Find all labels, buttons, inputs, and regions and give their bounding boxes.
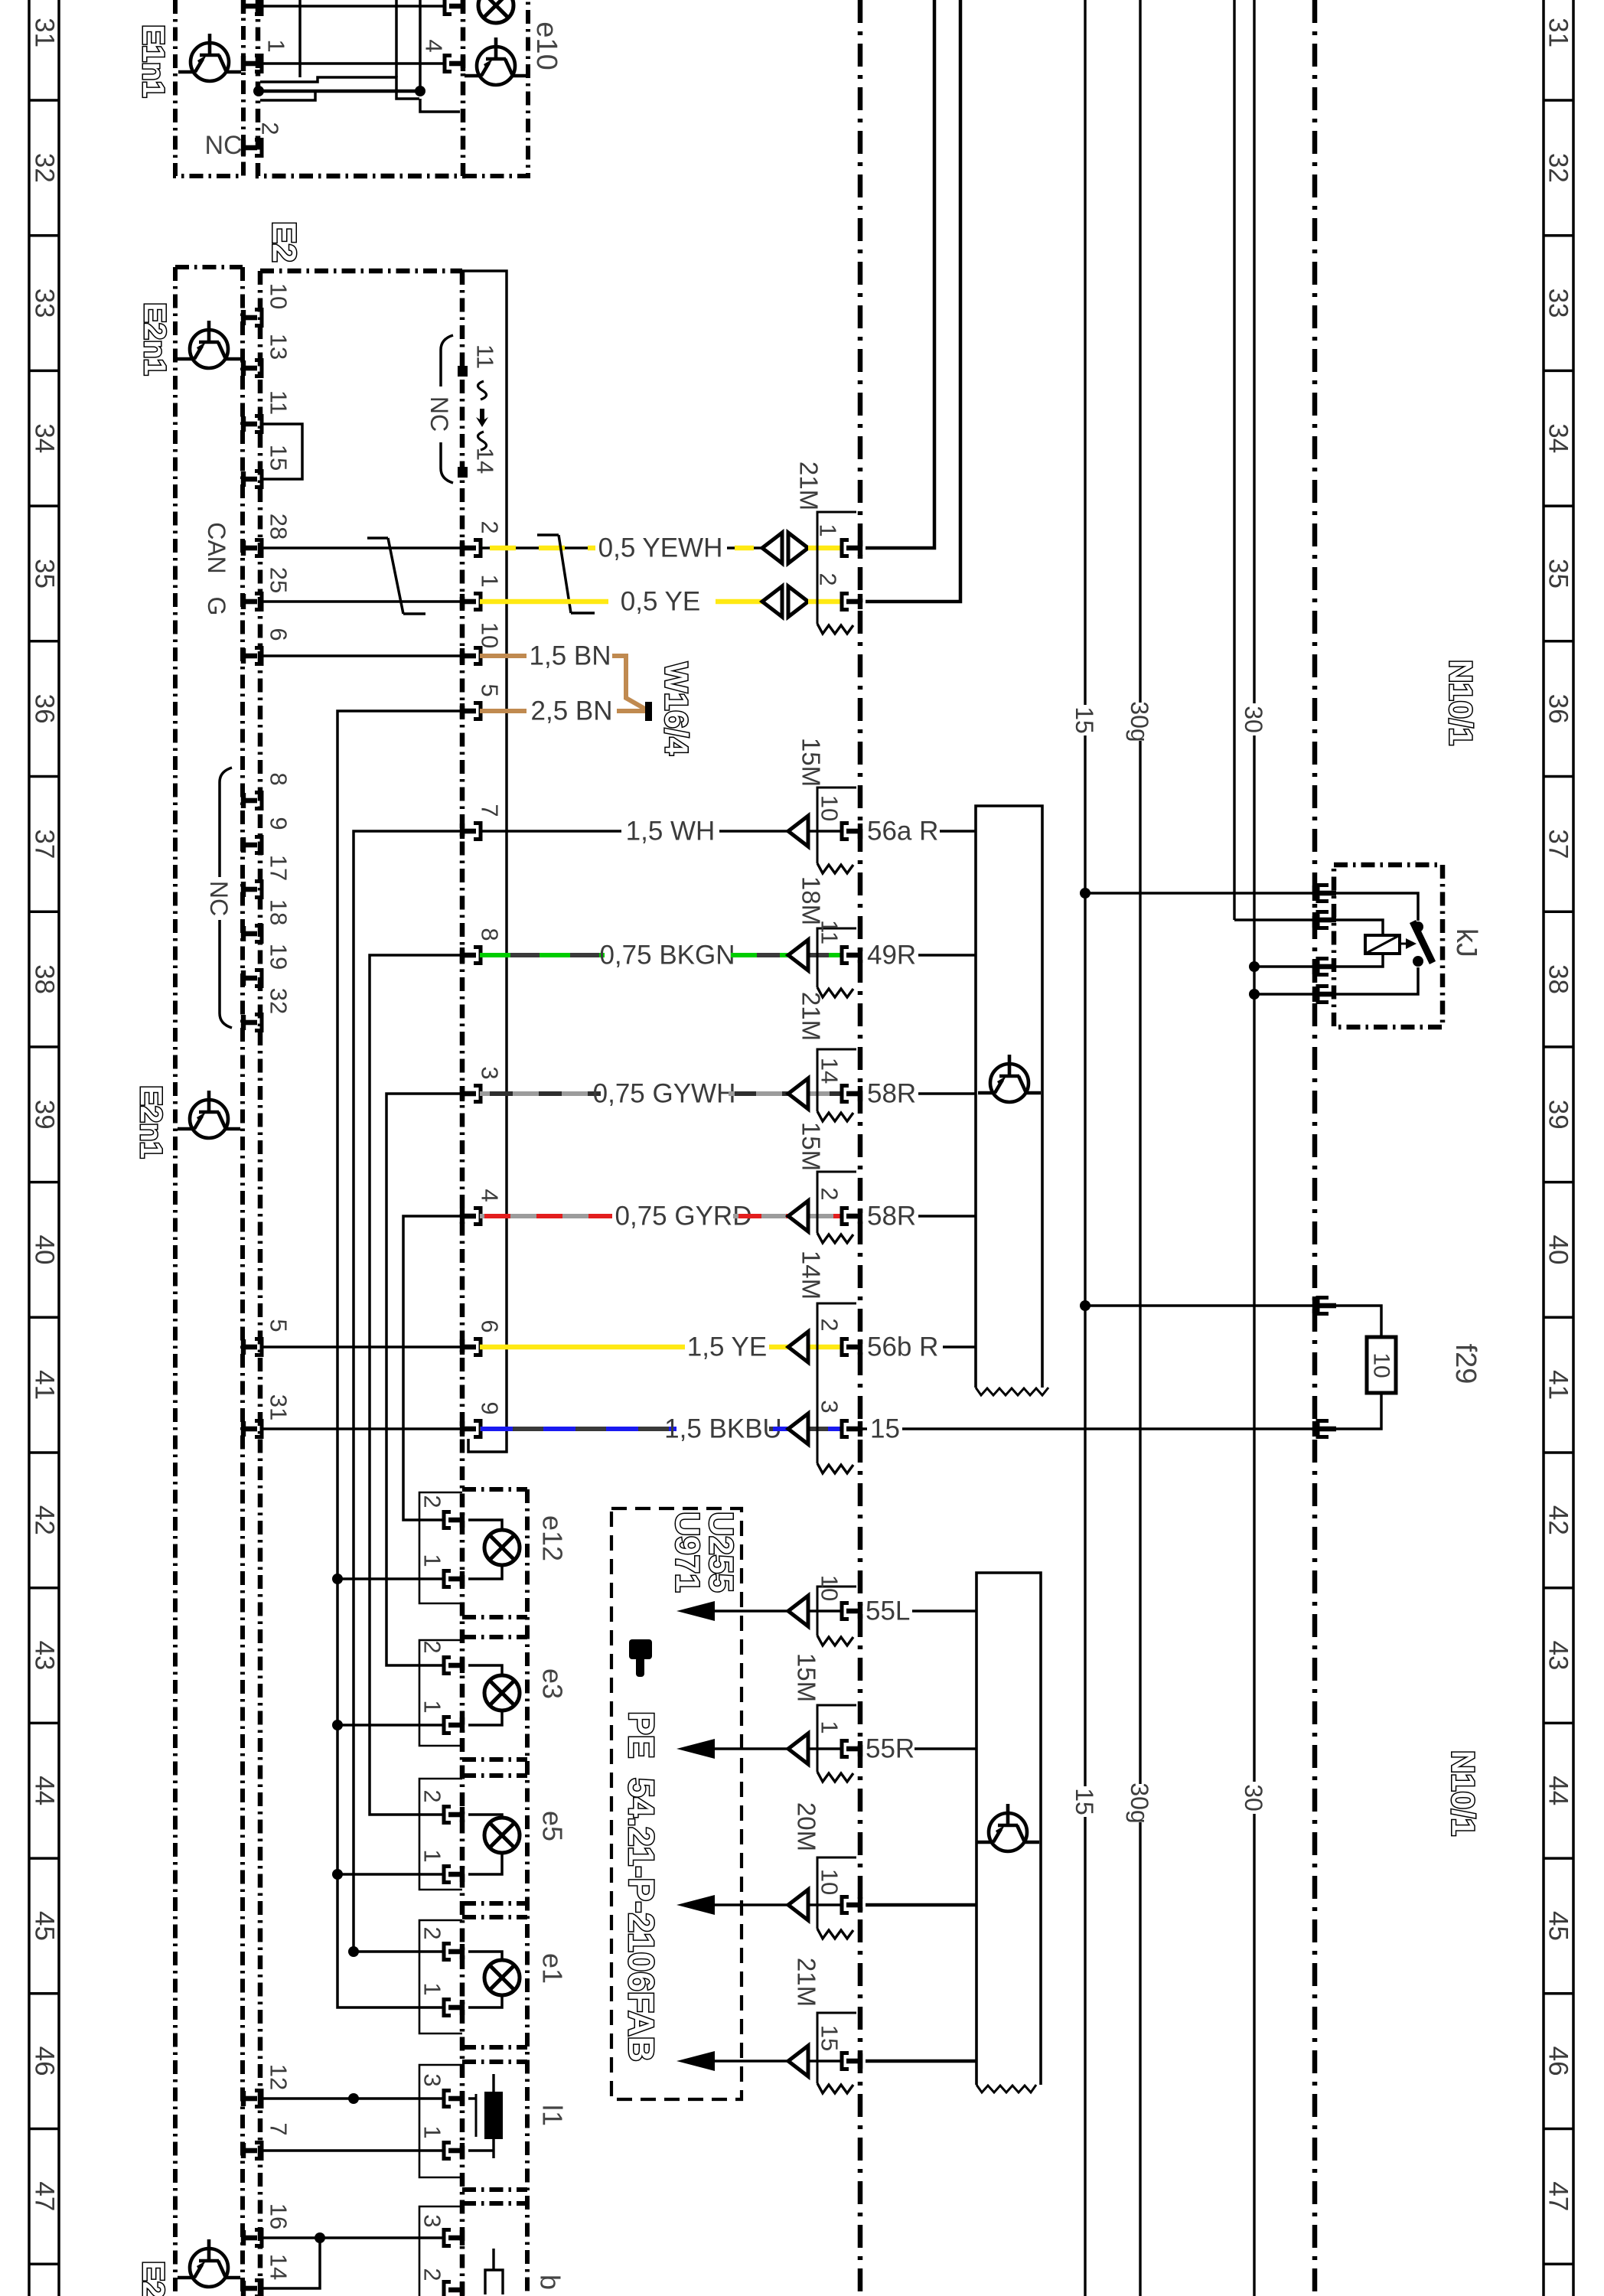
svg-text:38: 38 [1544, 964, 1573, 994]
component box E2n1 left edge [173, 267, 178, 2296]
wire 15 bus to kJ pin [1085, 892, 1315, 895]
lamp e1 [484, 1960, 520, 1995]
svg-text:W16/4: W16/4 [659, 662, 695, 755]
svg-text:6: 6 [266, 628, 292, 641]
svg-text:2,5 BN: 2,5 BN [531, 696, 613, 726]
svg-text:1: 1 [477, 574, 504, 587]
wire e1 pin2 to lamp [468, 1952, 502, 1960]
svg-text:3: 3 [419, 2214, 446, 2227]
svg-text:58R: 58R [867, 1079, 916, 1109]
pin 11 stub E2 right [458, 366, 468, 377]
junction l1 pin3 feed [348, 2093, 359, 2104]
pin 10 55L [842, 1603, 862, 1619]
pin 2 21M third [842, 1208, 862, 1225]
junction b pin3 feed [315, 2232, 325, 2243]
twisted pair marker outer [537, 535, 595, 613]
svg-text:U971: U971 [669, 1512, 706, 1592]
svg-text:0,75 GYRD: 0,75 GYRD [615, 1202, 752, 1231]
wire E2 pin5 row [262, 1345, 462, 1349]
fuse f29 [1367, 1337, 1396, 1393]
wire 30 bus to kJ coil [1254, 965, 1315, 968]
component box E2 top edge [260, 269, 462, 274]
LED in E2n1 upper [178, 321, 240, 368]
svg-text:25: 25 [266, 567, 292, 593]
wire 1,5 BN brown [480, 654, 527, 658]
PE arrow 55R [676, 1739, 715, 1759]
svg-text:e5: e5 [537, 1811, 569, 1841]
pin 2 E1 (NC) [241, 140, 262, 156]
svg-text:39: 39 [1544, 1100, 1573, 1130]
svg-text:2: 2 [419, 1640, 446, 1653]
wire pin7 to l1 pin1 [262, 2149, 445, 2152]
branch to e12 pin1 [337, 1577, 445, 1580]
svg-text:E2: E2 [266, 221, 303, 263]
label bg 15 bus upper [1071, 705, 1099, 735]
pin 5 E2 left [241, 1339, 262, 1355]
svg-text:17: 17 [266, 855, 292, 881]
lamp boxes right edge [525, 1489, 530, 2296]
component box E2n1 right edge [240, 267, 245, 2296]
junction 30 bus coil [1249, 961, 1260, 972]
pin 2 e1 [444, 1944, 465, 1960]
wire 1,5 BKBU base [480, 1427, 676, 1431]
svg-text:1: 1 [817, 1720, 843, 1733]
junction e12 pin1 [332, 1574, 343, 1584]
svg-text:11: 11 [266, 390, 292, 415]
pin 10 E2 left [241, 310, 262, 326]
pin 4 E2 right [460, 1208, 481, 1225]
wire 20M to module2 [866, 1903, 976, 1907]
PE arrow 21M fourth [676, 2051, 715, 2071]
wire 0,75 BKGN green dashes [480, 953, 605, 957]
label bg YEWH [595, 533, 727, 562]
label bg 15 [867, 1416, 902, 1442]
pin 3 14M [842, 1421, 862, 1437]
wire l1 pin1 lead [468, 2149, 494, 2152]
pin 2 e5 [444, 1807, 465, 1823]
svg-text:31: 31 [1544, 18, 1573, 47]
svg-text:3: 3 [477, 1066, 504, 1079]
NC squiggle arrows [478, 381, 486, 450]
svg-text:31: 31 [30, 18, 60, 47]
pin kJ 3 [1312, 959, 1317, 974]
bus wire unnamed [1233, 0, 1235, 920]
wire E1 internal staircase B [260, 77, 419, 99]
wire vertical drop x549 [419, 0, 422, 91]
connector housing e5 [419, 1779, 462, 1890]
connector housing 14M [817, 1303, 856, 1463]
svg-text:38: 38 [30, 964, 60, 994]
wire e5 lamp to pin1 [468, 1853, 502, 1874]
svg-text:15: 15 [1071, 1788, 1098, 1815]
svg-text:12: 12 [266, 2064, 292, 2090]
connector housing 21M third [817, 1172, 856, 1233]
svg-text:30g: 30g [1126, 1782, 1153, 1823]
svg-text:14: 14 [817, 1058, 843, 1084]
wire unnamed bus to kJ [1234, 918, 1315, 921]
pin 32 E2 left [241, 1015, 262, 1031]
svg-text:1: 1 [419, 1700, 446, 1713]
wire E2 pin28-pin2 CAN H [262, 546, 462, 550]
connector arrow BKGN [788, 940, 808, 970]
label bg 30 upper [1240, 703, 1268, 735]
wire E2 shield top [462, 271, 507, 1452]
wire 49R to module [918, 954, 976, 957]
svg-text:31: 31 [266, 1394, 292, 1420]
lamp box e3 bottom edge [462, 1757, 527, 1762]
pin 1 21M [842, 540, 862, 556]
svg-text:15M: 15M [793, 1653, 821, 1702]
pin 2 14M [842, 1339, 862, 1355]
pin 3 b [444, 2230, 465, 2246]
wire net 15 inside N10/1 [860, 1427, 1315, 1430]
pin 1 55R [842, 1741, 862, 1757]
wire BKGN right green [731, 953, 843, 957]
svg-text:21M: 21M [795, 461, 823, 510]
wire 0,5 YEWH black base [480, 546, 762, 550]
svg-text:33: 33 [30, 289, 60, 318]
wire GYRD right red [738, 1214, 843, 1218]
lamp box e12 top edge [462, 1487, 527, 1492]
svg-text:47: 47 [1544, 2181, 1573, 2211]
pin 7 E2 right [460, 823, 481, 840]
wire E1 top row [260, 5, 446, 8]
pin 3 E2 right [460, 1086, 481, 1102]
reference box U255/U971 [611, 1508, 742, 2099]
svg-text:15M: 15M [797, 738, 826, 787]
pin 16 E2 left [241, 2230, 262, 2246]
pin 9 E2 right [460, 1421, 481, 1437]
wire 21M fourth left [715, 2060, 843, 2063]
svg-text:2: 2 [817, 1318, 843, 1331]
svg-text:E2n1: E2n1 [136, 2261, 170, 2296]
wire pin12 to l1 pin3 [262, 2097, 445, 2100]
NC bracket left cluster [220, 768, 232, 1028]
svg-text:PE 54.21-P-2106FAB: PE 54.21-P-2106FAB [621, 1711, 661, 2062]
pin 2 e3 [444, 1658, 465, 1674]
pin 3 l1 [444, 2091, 465, 2107]
branch to e1 pin2 [354, 1950, 445, 1953]
wire 20M left [715, 1903, 843, 1906]
pin 25 E2 left [241, 594, 262, 610]
wire 56b R to module [943, 1345, 976, 1349]
junction node A2 [415, 86, 425, 96]
wire vertical drop x518 [395, 0, 398, 77]
label bg 30 lower [1240, 1782, 1268, 1814]
svg-text:56b R: 56b R [867, 1332, 938, 1362]
svg-text:35: 35 [30, 559, 60, 589]
svg-text:2: 2 [817, 1187, 843, 1200]
connector arrow BKBU [788, 1414, 808, 1444]
connector arrow 21M fourth [788, 2046, 808, 2076]
pin 15 E2 left [241, 471, 262, 488]
svg-text:32: 32 [1544, 153, 1573, 183]
svg-text:46: 46 [1544, 2047, 1573, 2076]
svg-text:5: 5 [266, 1319, 292, 1332]
pin 9 E2 left [241, 837, 262, 853]
svg-text:10: 10 [1369, 1352, 1394, 1378]
component box l1 bottom edge [462, 2187, 527, 2192]
component box e10 [463, 0, 528, 176]
connector arrow 20M [788, 1890, 808, 1920]
svg-text:44: 44 [1544, 1776, 1573, 1805]
svg-text:39: 39 [30, 1100, 60, 1130]
svg-text:1: 1 [263, 39, 290, 52]
svg-text:28: 28 [266, 514, 292, 540]
module N10/1 left edge [858, 0, 863, 2296]
wire GYWH right dashes [735, 1091, 843, 1096]
connector housing 15M [817, 788, 856, 863]
connector housing e3 [419, 1640, 462, 1746]
wire 0,75 BKGN base [480, 953, 605, 957]
lamp box e5 top edge [462, 1773, 527, 1778]
pin 14 21M [842, 1086, 862, 1102]
wire 56a R to module [940, 830, 976, 833]
wire BKBU right blue [773, 1427, 843, 1431]
pin 14 E2 left [241, 2281, 262, 2296]
LED D1 in E1n1 [178, 34, 241, 81]
lamp box e3 top edge [462, 1635, 527, 1639]
connector housing 18M [817, 928, 856, 987]
hand icon [629, 1639, 652, 1677]
connector arrows YEWH [762, 533, 782, 563]
wire pin14 riser [262, 2238, 320, 2288]
wire E2 pin25-pin1 CAN L [262, 600, 462, 603]
svg-text:0,75 BKGN: 0,75 BKGN [599, 941, 735, 970]
wire vertical drop x392 [298, 0, 302, 77]
wire E1 internal bus A [259, 90, 420, 93]
wire 58R to module [918, 1092, 976, 1095]
svg-text:19: 19 [266, 944, 292, 970]
lamp box e12 bottom edge [462, 1615, 527, 1619]
svg-text:55L: 55L [866, 1596, 910, 1626]
wire GYRD right part [733, 1214, 843, 1218]
svg-text:1,5 YE: 1,5 YE [687, 1332, 767, 1362]
wire E1 internal C [260, 93, 315, 100]
pin kJ 1 [1312, 885, 1317, 901]
svg-text:34: 34 [30, 423, 60, 453]
svg-text:7: 7 [266, 2122, 292, 2135]
svg-text:30g: 30g [1126, 701, 1153, 742]
component box E2n1 top edge [175, 265, 243, 269]
pin f29 top [1312, 1298, 1317, 1313]
pin 12 E2 left [241, 2091, 262, 2107]
wire BKBU right part [769, 1427, 843, 1431]
svg-text:10: 10 [817, 1575, 843, 1601]
svg-text:5: 5 [477, 683, 504, 696]
svg-text:32: 32 [30, 153, 60, 183]
svg-text:18M: 18M [797, 876, 826, 925]
wire f29 top lead [1333, 1306, 1381, 1337]
wire E2 internal pin7 drop x462 [354, 831, 462, 1952]
svg-text:kJ: kJ [1450, 928, 1482, 957]
wire 21M pin2 riser [866, 0, 960, 602]
label bg YE [608, 588, 716, 615]
lamp e12 [484, 1530, 520, 1565]
connector housing 21M second [817, 1049, 856, 1111]
junction e1 pin2 [348, 1946, 359, 1957]
svg-text:14: 14 [266, 2254, 292, 2280]
wire YEWH to 21M pin1 [808, 546, 843, 551]
wire kJ coil bottom [1333, 954, 1383, 967]
pin 2 E2 right [460, 540, 481, 556]
ground stud W16/4 [645, 702, 652, 721]
svg-text:55R: 55R [866, 1734, 914, 1764]
svg-text:U255: U255 [703, 1512, 740, 1592]
svg-text:e3: e3 [537, 1668, 569, 1699]
svg-text:9: 9 [266, 817, 292, 830]
LED in box1 [978, 1055, 1041, 1102]
branch to e3 pin1 [337, 1724, 445, 1727]
wire f29 bottom lead [1333, 1393, 1381, 1429]
pin 11 E2 left [241, 416, 262, 432]
connector arrow 55R [788, 1733, 808, 1764]
pin 13 E2 left [241, 360, 262, 377]
svg-text:3: 3 [419, 2073, 446, 2086]
svg-text:41: 41 [1544, 1370, 1573, 1400]
wire f29 top to bus 15 [1085, 1304, 1315, 1307]
module inner box 1 [976, 806, 1042, 1388]
relay coil kJ [1365, 935, 1400, 954]
wire 1,5 BKBU blue dashes [481, 1427, 676, 1431]
wire YE to 21M pin2 [808, 599, 843, 605]
wire kJ coil top feed [1333, 920, 1383, 935]
wire 0,75 GYRD base [480, 1214, 612, 1218]
svg-text:1: 1 [419, 1554, 446, 1567]
svg-text:56a R: 56a R [867, 817, 938, 846]
pin 10 20M [842, 1897, 862, 1913]
svg-text:0,5 YE: 0,5 YE [621, 587, 700, 617]
page border right column [1544, 0, 1573, 2296]
svg-text:36: 36 [1544, 694, 1573, 724]
pin 15 21M fourth [842, 2053, 862, 2069]
svg-text:16: 16 [266, 2203, 292, 2229]
pin E1 left top [241, 0, 262, 15]
relay box kJ [1334, 865, 1443, 1027]
svg-text:2: 2 [815, 572, 842, 585]
svg-text:43: 43 [30, 1641, 60, 1671]
svg-text:46: 46 [30, 2047, 60, 2076]
wire E2 internal pin11-pin15 loop [262, 424, 302, 479]
svg-text:11: 11 [472, 344, 499, 369]
PE arrow 20M [676, 1895, 715, 1915]
svg-text:14M: 14M [797, 1251, 826, 1300]
pin 31 E2 left [241, 1421, 262, 1437]
lamp box e1 bottom edge [462, 2045, 527, 2050]
twisted pair marker inner [367, 538, 425, 614]
svg-text:10: 10 [266, 283, 292, 309]
wire 0,5 YE yellow [480, 599, 762, 605]
LED in E2n1 bottom [178, 2239, 240, 2287]
svg-text:0,75 GYWH: 0,75 GYWH [593, 1079, 736, 1109]
svg-text:2: 2 [257, 122, 284, 135]
wire 55R left [715, 1747, 843, 1750]
connector housing l1 [419, 2065, 462, 2177]
svg-text:36: 36 [30, 694, 60, 724]
wire e3 pin2 to lamp [468, 1665, 502, 1675]
pin 1 e5 [444, 1867, 465, 1883]
lamp in e10 [478, 0, 513, 23]
relay contact top [1413, 921, 1423, 932]
svg-text:11: 11 [817, 920, 843, 944]
wire 30 bus to kJ switch [1254, 993, 1315, 996]
wire 1,5 WH [480, 830, 621, 833]
svg-text:NC: NC [425, 396, 453, 432]
wire e1 lamp to pin1 [468, 1995, 502, 2007]
svg-text:58R: 58R [867, 1202, 916, 1231]
wire 55L to module2 [912, 1609, 976, 1613]
pin 10 E2 right [460, 648, 481, 664]
wire 58R second to module [918, 1215, 976, 1218]
svg-text:1,5 BN: 1,5 BN [530, 641, 611, 671]
wire kJ switch top feed [1333, 893, 1418, 921]
lamp e5 [484, 1818, 520, 1853]
wire e5 pin2 to lamp [468, 1815, 502, 1818]
pin 2 b [444, 2282, 465, 2296]
LED in box2 [976, 1804, 1039, 1851]
svg-text:10: 10 [477, 622, 504, 648]
svg-text:NC: NC [205, 881, 233, 916]
connector housing b [419, 2206, 462, 2296]
wire e12 pin2 to lamp [468, 1520, 502, 1530]
connector housing 20M [817, 1857, 856, 1929]
pin kJ 4 [1312, 987, 1317, 1002]
bus wire 15 [1084, 0, 1086, 2296]
pin 1 e12 [444, 1571, 465, 1587]
svg-text:37: 37 [30, 829, 60, 859]
svg-text:15: 15 [266, 445, 292, 471]
svg-text:40: 40 [1544, 1234, 1573, 1264]
pin 19 E2 left [241, 970, 262, 987]
connector housing 21M fourth [817, 2013, 856, 2083]
component box E1n1 [175, 0, 243, 176]
junction 30 bus switch [1249, 989, 1260, 1000]
svg-text:32: 32 [266, 988, 292, 1014]
bus wire 30g [1139, 0, 1141, 2296]
svg-text:2: 2 [419, 2268, 446, 2281]
svg-text:G: G [203, 597, 230, 616]
pin f29 bottom [1312, 1421, 1317, 1437]
wire 0,75 GYWH base [480, 1091, 601, 1096]
svg-text:N10/1: N10/1 [1446, 1750, 1482, 1836]
svg-text:15M: 15M [797, 1122, 826, 1171]
junction e5 pin1 [332, 1869, 343, 1880]
svg-text:1: 1 [419, 1849, 446, 1862]
wire 2,5 BN brown [480, 709, 527, 713]
connector arrows YE [762, 586, 782, 617]
svg-text:44: 44 [30, 1776, 60, 1805]
pin 6 E2 right [460, 1339, 481, 1355]
svg-text:4: 4 [421, 39, 448, 52]
junction e3 pin1 [332, 1720, 343, 1730]
svg-text:10: 10 [817, 1869, 843, 1895]
svg-text:2: 2 [419, 1926, 446, 1939]
label bg 30g upper [1126, 703, 1154, 741]
svg-text:1: 1 [419, 2125, 446, 2138]
pin 11 18M [842, 947, 862, 964]
pin 6 E2 left [241, 648, 262, 664]
wire 55L left [715, 1609, 843, 1613]
svg-text:3: 3 [817, 1400, 843, 1413]
relay contact bottom [1413, 956, 1423, 967]
wire E2 pin31-pin9 [262, 1427, 462, 1430]
pin kJ 2 [1312, 912, 1317, 928]
svg-text:14: 14 [472, 448, 499, 474]
connector housing 15M second [817, 1705, 856, 1772]
pin 1 E2 right [460, 594, 481, 610]
page border left column [29, 0, 59, 2296]
svg-text:9: 9 [477, 1401, 504, 1414]
